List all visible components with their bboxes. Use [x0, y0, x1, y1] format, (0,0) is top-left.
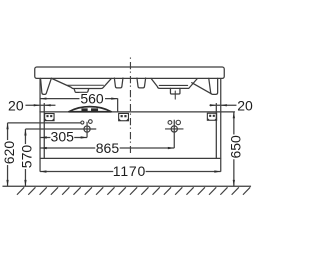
svg-text:305: 305	[51, 129, 75, 145]
svg-text:1170: 1170	[113, 163, 146, 179]
svg-text:560: 560	[80, 91, 104, 107]
svg-text:20: 20	[8, 97, 24, 113]
svg-text:865: 865	[96, 140, 120, 156]
svg-text:620: 620	[1, 141, 17, 165]
svg-text:20: 20	[237, 98, 253, 114]
svg-text:650: 650	[227, 135, 243, 159]
svg-text:570: 570	[18, 145, 34, 169]
